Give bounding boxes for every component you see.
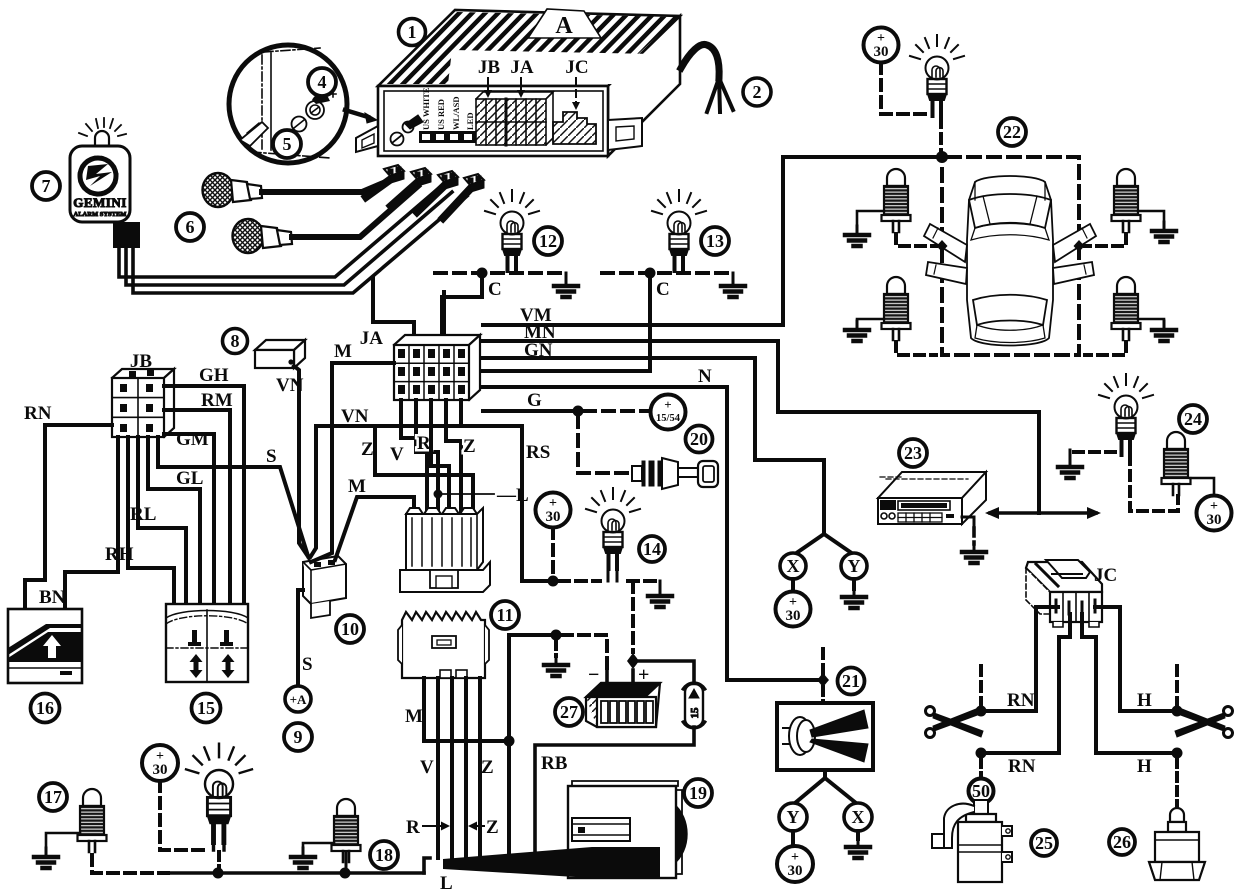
unit label band — [448, 50, 652, 84]
unit JB/JA socket grid — [476, 92, 553, 145]
svg-text:M: M — [405, 706, 423, 727]
svg-text:GM: GM — [176, 429, 209, 450]
svg-text:23: 23 — [904, 443, 922, 463]
node X lower — [844, 803, 872, 831]
ground left of lamp 24 — [1058, 458, 1082, 478]
lamp 13 — [652, 190, 706, 271]
svg-text:30: 30 — [1207, 512, 1222, 528]
svg-text:M: M — [348, 476, 366, 497]
wire GL — [148, 437, 200, 604]
lamp 24 — [1099, 374, 1153, 455]
lower connector below JA — [400, 508, 490, 592]
wire RN upper — [981, 709, 1036, 713]
svg-text:JB: JB — [130, 351, 153, 372]
svg-text:30: 30 — [874, 44, 889, 60]
dashed RB to box corner — [1085, 342, 1126, 355]
wire fuse to RB — [535, 727, 694, 851]
svg-text:1: 1 — [408, 22, 417, 42]
window switch module 15 — [166, 604, 248, 682]
wire S to plug 10 — [158, 437, 308, 556]
door switch RT — [1112, 169, 1141, 232]
svg-text:BN: BN — [39, 587, 66, 608]
svg-text:15: 15 — [689, 707, 701, 719]
wire Z left drop — [375, 426, 473, 514]
callout 21 — [838, 668, 865, 695]
ground sw18 — [303, 843, 334, 848]
lamp 12 — [485, 190, 539, 271]
unit panel vertical labels — [421, 87, 475, 130]
bottom bus wire — [168, 871, 424, 875]
svg-text:X: X — [787, 556, 800, 576]
horn 21 — [777, 703, 873, 770]
svg-text:H: H — [1137, 756, 1152, 777]
svg-text:ALARM SYSTEM: ALARM SYSTEM — [74, 211, 127, 218]
wire GM — [164, 434, 214, 604]
wire JA p5 — [459, 400, 463, 426]
callout 19 — [684, 779, 712, 807]
mic 6a wire — [262, 181, 388, 192]
node RS junction — [548, 576, 559, 587]
svg-text:6: 6 — [186, 217, 195, 237]
node C 12 — [477, 268, 488, 279]
svg-text:2: 2 — [753, 82, 762, 102]
callout 16 — [31, 694, 60, 723]
svg-text:17: 17 — [44, 787, 62, 807]
dashed H stub up — [1175, 666, 1179, 705]
svg-text:US RED: US RED — [436, 99, 446, 130]
label JC with dashed arrow — [565, 57, 588, 110]
svg-text:16: 16 — [36, 698, 54, 718]
dashed RN stub up — [979, 666, 983, 705]
antenna wire (2) — [681, 44, 733, 112]
terminal 50 — [969, 779, 994, 804]
relay box 8 — [255, 340, 305, 368]
svg-text:X: X — [852, 807, 865, 827]
wire GN — [483, 358, 824, 534]
node +A — [285, 686, 311, 712]
conn 11 wire M — [424, 678, 505, 741]
wire C13 to JA — [483, 273, 650, 371]
node Y upper — [841, 553, 867, 579]
callout 17 — [39, 783, 67, 811]
badge harness wire 3 — [133, 196, 467, 293]
svg-text:27: 27 — [560, 702, 578, 722]
wire from harness into JA top a — [373, 278, 414, 340]
harness plug tails — [366, 179, 471, 218]
perimeter dashed box 22 — [942, 157, 1079, 355]
dashed stub above horn node — [821, 649, 825, 674]
callout 2 — [743, 78, 771, 106]
callout 24 — [1179, 405, 1207, 433]
svg-text:C: C — [656, 279, 670, 300]
callout 5 — [273, 130, 301, 158]
wire Y to plus30 — [791, 831, 795, 846]
wire X to plus30 — [791, 579, 795, 592]
microphone sensor 6b — [233, 219, 293, 253]
svg-text:24: 24 — [1184, 409, 1202, 429]
node VM junction — [936, 151, 948, 163]
svg-text:RN: RN — [1008, 756, 1036, 777]
svg-text:21: 21 — [842, 671, 860, 691]
callout 8 — [223, 329, 248, 354]
connector JC — [1026, 560, 1102, 627]
callout 27 — [555, 698, 583, 726]
callout 11 — [491, 601, 519, 629]
svg-text:10: 10 — [341, 619, 359, 639]
dashed plus30 to top lamp — [881, 63, 927, 114]
svg-text:15/54: 15/54 — [656, 413, 681, 424]
svg-text:JA: JA — [510, 57, 534, 78]
svg-text:RB: RB — [541, 753, 568, 774]
dashed plus30 to node — [551, 528, 555, 576]
unit top vent slats — [384, 6, 713, 90]
gemini badge box (7) — [70, 146, 130, 222]
callout 20 — [686, 426, 713, 453]
dashed from node to ground — [554, 640, 558, 656]
double arrow radio link — [990, 511, 1096, 515]
wire JA p1 — [401, 400, 427, 514]
svg-text:V: V — [420, 757, 434, 778]
wire S to +A — [298, 590, 303, 686]
wire JA p3 — [431, 400, 449, 514]
wire RM — [164, 410, 230, 604]
dashed G down to key switch — [578, 416, 630, 473]
svg-text:G: G — [527, 390, 542, 411]
node RN lower — [976, 748, 987, 759]
node M-junction — [504, 736, 515, 747]
pin switch 18 — [332, 799, 361, 862]
actuator module 19 — [568, 781, 687, 878]
dashed sw17 down to bus — [92, 855, 168, 873]
harness plug 4 — [464, 174, 484, 192]
ground lamp14 — [659, 581, 662, 588]
svg-text:11: 11 — [496, 605, 513, 625]
scissors right — [1175, 707, 1233, 738]
wire RL — [138, 437, 186, 604]
harness plug 3 — [438, 171, 458, 189]
ground LB — [857, 319, 884, 322]
callout 25 — [1031, 830, 1057, 856]
svg-text:15: 15 — [197, 698, 215, 718]
callout 26 — [1109, 829, 1135, 855]
conn 11 wire L — [478, 678, 482, 862]
plus30 right — [1197, 496, 1232, 531]
svg-text:—L: —L — [496, 485, 529, 506]
svg-text:RM: RM — [201, 390, 233, 411]
dashed lamp to junction — [939, 118, 943, 152]
wire plus to fuse — [633, 661, 694, 684]
wire M left of JA — [311, 363, 394, 562]
wire RN — [25, 425, 112, 609]
svg-text:LED: LED — [465, 113, 475, 130]
svg-text:−: − — [588, 664, 599, 686]
wire JA p4 — [446, 400, 461, 514]
wire X to ground — [856, 831, 860, 839]
wire VN bus — [316, 424, 522, 428]
conn 11 wire Z — [464, 678, 468, 860]
unit buzzer icon — [403, 115, 424, 133]
callout 23 — [899, 439, 927, 467]
svg-text:RN: RN — [1007, 690, 1035, 711]
dashed RN down to coil — [979, 759, 983, 777]
microphone sensor 6a — [203, 173, 263, 207]
wire BN — [65, 437, 118, 609]
svg-text:M: M — [334, 341, 352, 362]
svg-text:GL: GL — [176, 468, 203, 489]
svg-text:GEMINI: GEMINI — [73, 195, 127, 210]
ground RB — [1138, 319, 1164, 322]
callout 10 — [336, 615, 364, 643]
svg-text:V: V — [390, 444, 404, 465]
harness plug 1 — [384, 165, 404, 183]
node box left mid — [937, 240, 948, 252]
radio pigtail to ground — [962, 517, 974, 528]
dashed G to ignition 15/54 — [584, 409, 648, 413]
fuse 15A — [683, 683, 705, 728]
wire M junction vertical — [507, 635, 511, 855]
label JB with arrow — [478, 57, 501, 98]
svg-text:Z: Z — [486, 817, 499, 838]
node box right mid — [1074, 240, 1085, 252]
callout 12 — [534, 227, 562, 255]
JC wire left outer — [1036, 607, 1058, 711]
ground RT — [1138, 211, 1164, 223]
ground lamp13 — [732, 273, 735, 279]
trunk release module 16 — [8, 609, 82, 683]
svg-text:RN: RN — [24, 403, 52, 424]
wire G with node — [483, 409, 578, 413]
wire MN — [483, 341, 1039, 513]
dashed RT to box — [1085, 234, 1126, 246]
svg-text:26: 26 — [1113, 832, 1131, 852]
svg-text:5: 5 — [283, 134, 292, 154]
radio 23 — [878, 472, 986, 524]
wire sw24 to plus30 — [1190, 478, 1214, 495]
dashed to lamp 14 and ground — [559, 579, 660, 583]
LED lamp on gemini badge — [79, 118, 126, 146]
wire Y to ground — [852, 579, 856, 589]
svg-text:Z: Z — [361, 439, 374, 460]
plus30 top right — [864, 28, 899, 63]
connector JB — [112, 369, 174, 437]
conn 11 wire V — [436, 678, 440, 858]
svg-text:+: + — [664, 397, 671, 412]
wire H upper — [1120, 709, 1177, 713]
svg-text:50: 50 — [972, 781, 990, 801]
node bus sw18 — [340, 868, 351, 879]
svg-text:30: 30 — [153, 762, 168, 778]
wire M to lower plug — [335, 497, 414, 560]
dashed gnd to lamp 24 — [1074, 450, 1118, 454]
terminal 15/54 — [651, 395, 686, 430]
dashed LB to box corner — [896, 342, 936, 355]
svg-text:R: R — [406, 817, 420, 838]
unit screw on panel — [391, 133, 404, 146]
pin switch 17 — [78, 789, 107, 852]
svg-text:7: 7 — [42, 176, 51, 196]
badge cable stub — [113, 222, 140, 248]
svg-text:Y: Y — [787, 807, 800, 827]
thick cable wedge into 19 — [443, 847, 592, 878]
ground LT — [857, 211, 884, 227]
svg-text:A: A — [555, 13, 573, 39]
detail circle arrow to unit — [345, 110, 368, 117]
door switch LB — [882, 277, 911, 340]
plus30 under X — [776, 592, 811, 627]
wire C12 to JA — [442, 273, 482, 340]
callout 6 — [176, 213, 204, 241]
door switch RB — [1112, 277, 1141, 340]
svg-text:Y: Y — [848, 556, 861, 576]
dashed from node to battery minus — [562, 635, 607, 672]
oil pressure sender 26 — [1149, 808, 1205, 880]
svg-text:L: L — [440, 873, 453, 891]
svg-text:4: 4 — [318, 72, 327, 92]
svg-text:R: R — [417, 433, 431, 454]
dashed 50 to coil — [979, 804, 983, 816]
svg-text:12: 12 — [539, 231, 557, 251]
callout 7 — [32, 172, 60, 200]
node H upper — [1172, 706, 1183, 717]
conn 11 wire R — [450, 678, 454, 858]
wire GH — [164, 386, 244, 604]
svg-text:8: 8 — [231, 331, 240, 351]
svg-text:30: 30 — [788, 863, 803, 879]
svg-text:30: 30 — [786, 608, 801, 624]
door switch LT — [882, 169, 911, 232]
control unit U1 body — [378, 10, 680, 156]
svg-text:H: H — [1137, 690, 1152, 711]
dashed LT to box — [896, 234, 936, 246]
plus30 under Y — [777, 846, 813, 882]
car top view — [924, 176, 1096, 346]
node H lower — [1172, 748, 1183, 759]
svg-text:9: 9 — [294, 727, 303, 747]
svg-text:S: S — [302, 654, 313, 675]
svg-text:JC: JC — [1094, 565, 1117, 586]
node battery plus — [627, 653, 639, 669]
unit 4-pin socket row — [419, 131, 476, 143]
svg-text:30: 30 — [546, 509, 561, 525]
dashed node to horn — [821, 687, 825, 703]
dashed lamp to bus — [217, 852, 221, 868]
callout 1 — [399, 19, 426, 46]
node X upper — [780, 553, 806, 579]
plus30 circle above lamp 14 — [536, 493, 571, 528]
unit A marking — [528, 9, 601, 39]
callout 15 — [192, 694, 221, 723]
svg-text:22: 22 — [1003, 122, 1021, 142]
lamp top right — [910, 35, 964, 116]
JC wire right outer — [1095, 607, 1120, 711]
JC wire right inner — [1082, 614, 1096, 753]
plus30 bottom left — [142, 745, 178, 781]
wire RH — [128, 437, 174, 604]
unit right mounting bracket — [608, 118, 642, 150]
node C 13 — [645, 268, 656, 279]
svg-text:19: 19 — [689, 783, 707, 803]
fork under horn — [795, 770, 856, 803]
svg-text:GN: GN — [524, 340, 553, 361]
lamp 14 — [586, 488, 640, 569]
detail circle with key switch — [229, 45, 347, 163]
mic 6b wire — [292, 186, 418, 237]
harness plug 2 — [411, 168, 431, 186]
wire VN drop to plug 10 — [311, 426, 316, 556]
bus up to conn11 wires — [424, 858, 430, 873]
connector JA — [394, 335, 480, 400]
callout 14 — [639, 536, 665, 562]
badge harness wire 2 — [126, 192, 452, 285]
dashed plus30 to lamp — [160, 781, 205, 850]
wire RN lower — [981, 751, 1059, 755]
ignition key switch 20 — [632, 458, 718, 489]
connector 11 — [398, 612, 489, 678]
node RN upper — [976, 706, 987, 717]
lamp 13 dashed feed — [602, 271, 727, 275]
unit JC socket — [553, 112, 596, 144]
wire N — [483, 387, 817, 680]
svg-text:13: 13 — [706, 231, 724, 251]
svg-text:WL/ASD: WL/ASD — [451, 96, 461, 130]
lamp bottom-left — [186, 744, 252, 843]
pin switch 24 — [1162, 432, 1191, 495]
scissors left — [926, 707, 984, 738]
svg-text:VN: VN — [341, 406, 369, 427]
wire RS — [522, 426, 550, 581]
wire sw18 to bus — [345, 852, 348, 873]
wire box8 to plug 10 — [294, 366, 309, 558]
svg-text:25: 25 — [1035, 833, 1053, 853]
svg-text:Z: Z — [481, 757, 494, 778]
wire VM — [483, 157, 942, 325]
node L with leader — [434, 490, 443, 499]
ground lamp12 — [565, 273, 568, 279]
JC wire left inner — [1059, 614, 1070, 753]
callout 18 — [370, 841, 398, 869]
svg-text:JA: JA — [360, 328, 384, 349]
svg-text:JC: JC — [565, 57, 588, 78]
callout 13 — [701, 227, 729, 255]
svg-text:RL: RL — [130, 504, 156, 525]
svg-text:Z: Z — [463, 436, 476, 457]
svg-text:18: 18 — [375, 845, 393, 865]
dashed H down to sender — [1175, 759, 1179, 814]
lamp 12 dashed feed — [435, 271, 560, 275]
node horn junction — [817, 673, 829, 687]
dashed lamp 24 to switch — [1130, 455, 1178, 511]
svg-text:S: S — [266, 446, 277, 467]
svg-text:C: C — [488, 279, 502, 300]
ignition coil 25 — [932, 800, 1012, 882]
svg-text:US WHITE: US WHITE — [421, 87, 431, 130]
label JA with arrow — [510, 57, 534, 98]
callout 22 — [998, 118, 1026, 146]
wire JA p2 — [416, 400, 438, 514]
battery 27 — [586, 664, 660, 727]
node bus lamp — [213, 868, 224, 879]
node Y lower — [779, 803, 807, 831]
wire from harness into JA top b — [442, 292, 446, 340]
svg-text:20: 20 — [690, 429, 708, 449]
svg-text:14: 14 — [643, 539, 661, 559]
unit left mounting bracket — [356, 126, 378, 152]
svg-text:JB: JB — [478, 57, 501, 78]
ground sw17 — [46, 833, 80, 849]
wire M horizontal with node — [509, 633, 556, 637]
svg-text:+A: +A — [290, 692, 307, 707]
fork X Y upper — [795, 534, 853, 554]
